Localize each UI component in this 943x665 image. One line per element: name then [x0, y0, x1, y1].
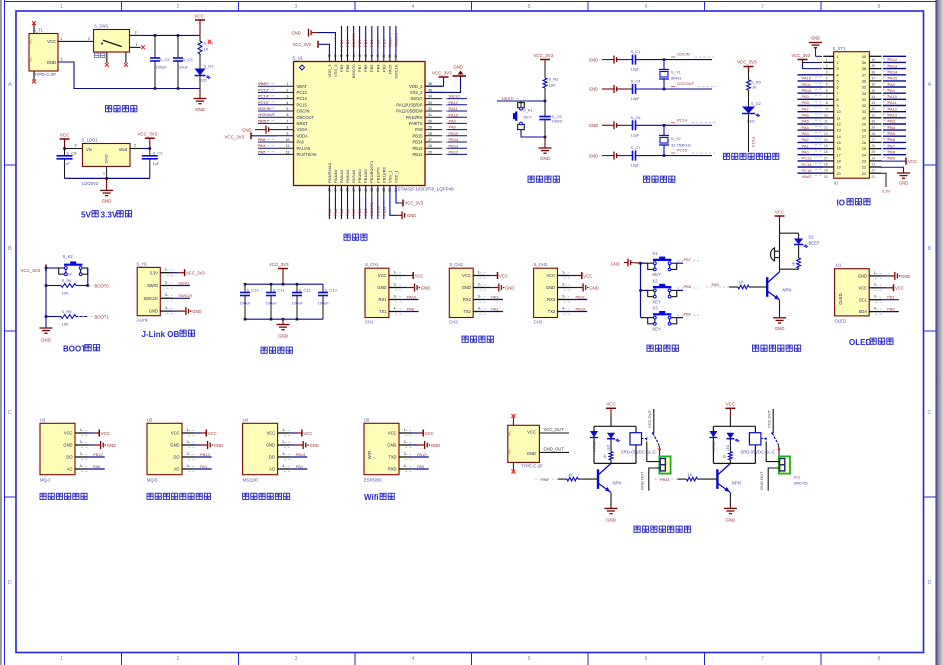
svg-text:3: 3 [394, 294, 396, 298]
svg-text:VCC: VCC [388, 431, 397, 436]
svg-text:4: 4 [404, 464, 406, 468]
resistor S_R3 1K [747, 80, 751, 91]
ST1 left pin 20 [823, 172, 833, 174]
svg-text:TYPE-C-2P: TYPE-C-2P [521, 464, 543, 469]
svg-text:PB14: PB14 [412, 140, 423, 145]
svg-text:PB0: PB0 [357, 208, 362, 216]
svg-text:S_Y2: S_Y2 [671, 136, 682, 141]
svg-text:SWCLK: SWCLK [393, 64, 398, 79]
svg-text:PB11/RX: PB11/RX [381, 167, 386, 183]
svg-text:PB14: PB14 [888, 70, 899, 75]
svg-text:32: 32 [428, 107, 432, 111]
regulator S_LDO1 [83, 144, 131, 167]
svg-text:VCC_3V3: VCC_3V3 [293, 42, 312, 47]
caption keys circuit [647, 345, 653, 351]
terminal JK green PA11 [779, 456, 790, 473]
svg-text:3: 3 [287, 95, 289, 99]
wire VCC OUT PA8 [653, 409, 655, 433]
svg-text:PB3: PB3 [888, 119, 896, 124]
svg-text:GND: GND [589, 153, 598, 158]
svg-text:PC15: PC15 [802, 168, 813, 173]
svg-text:40: 40 [862, 55, 866, 59]
svg-text:PC14: PC14 [258, 94, 269, 99]
ground GND reset [544, 137, 546, 148]
svg-text:19: 19 [837, 166, 841, 170]
svg-text:GND: GND [505, 285, 514, 290]
module U3 MQ-5 body [147, 423, 182, 474]
svg-text:VCC_3V3: VCC_3V3 [269, 262, 289, 267]
svg-text:29: 29 [428, 126, 432, 130]
ST1 left pin 8 [823, 98, 833, 100]
svg-text:VCC: VCC [101, 431, 110, 436]
svg-text:30: 30 [428, 119, 432, 123]
svg-text:VCC: VCC [303, 431, 312, 436]
svg-text:S_Y1: S_Y1 [671, 70, 682, 75]
svg-text:VCC_3V3: VCC_3V3 [21, 268, 41, 273]
net label PB8 [677, 287, 683, 289]
wire filter bottom rail [245, 318, 323, 320]
relay coil SRD PA8 [630, 433, 642, 445]
svg-text:VCC: VCC [208, 431, 217, 436]
capacitor S_C8 1uF [64, 149, 66, 156]
ST1 right pin 40 [869, 55, 881, 57]
svg-text:2: 2 [282, 440, 284, 444]
svg-text:WIFI: WIFI [367, 451, 372, 460]
svg-text:PA11: PA11 [660, 477, 670, 482]
svg-text:S_R4: S_R4 [62, 278, 73, 283]
svg-text:GND: GND [214, 443, 223, 448]
ST1 left pin 17 [823, 154, 833, 156]
svg-text:PB3: PB3 [381, 64, 386, 72]
svg-text:GND: GND [540, 156, 550, 161]
key S_K1 [521, 101, 545, 104]
svg-text:17: 17 [824, 156, 828, 160]
svg-text:4: 4 [80, 464, 82, 468]
key S_K2 [46, 267, 59, 269]
svg-text:S_C1: S_C1 [631, 49, 642, 54]
svg-text:OSCIN: OSCIN [677, 52, 690, 57]
svg-text:PA11: PA11 [888, 100, 898, 105]
svg-text:27: 27 [872, 138, 876, 142]
svg-text:PC15: PC15 [677, 148, 688, 153]
svg-text:12pF: 12pF [631, 67, 641, 72]
svg-text:2: 2 [826, 64, 828, 68]
svg-text:3: 3 [826, 70, 828, 74]
svg-text:KEY: KEY [64, 272, 73, 277]
svg-text:100uF: 100uF [318, 301, 330, 306]
svg-text:NC: NC [29, 38, 33, 44]
svg-text:PB12: PB12 [412, 152, 423, 157]
ST1 left pin 14 [823, 135, 833, 137]
ground GND io right [881, 167, 904, 171]
U1 left pin 11 PA1/A0 [277, 147, 294, 149]
svg-text:GND: GND [41, 338, 51, 343]
svg-text:BOOT1: BOOT1 [95, 314, 110, 319]
svg-text:VCC: VCC [47, 39, 56, 44]
svg-text:4: 4 [394, 306, 396, 310]
svg-text:PB1: PB1 [887, 295, 895, 300]
svg-text:1N5819: 1N5819 [712, 441, 716, 452]
svg-text:2: 2 [562, 282, 564, 286]
caption power circuit [106, 106, 112, 112]
svg-text:9: 9 [287, 132, 289, 136]
svg-text:PB11: PB11 [381, 206, 386, 216]
svg-text:VDDA: VDDA [297, 133, 309, 138]
svg-text:1: 1 [165, 268, 167, 272]
svg-text:PA4: PA4 [333, 208, 338, 216]
svg-text:2: 2 [404, 440, 406, 444]
svg-text:1: 1 [562, 270, 564, 274]
U1 left pin 12 PA2/TX/A0 [277, 153, 294, 155]
svg-text:3: 3 [404, 452, 406, 456]
svg-text:AO: AO [174, 467, 180, 472]
resistor S_R5 10K [46, 316, 61, 318]
svg-text:14: 14 [837, 135, 841, 139]
svg-text:PB11: PB11 [576, 294, 586, 299]
svg-text:S_R2: S_R2 [549, 77, 560, 82]
svg-text:PA10: PA10 [417, 452, 427, 457]
ST1 right pin 32 [869, 105, 881, 107]
svg-text:S_C7: S_C7 [631, 145, 642, 150]
svg-text:S_C2: S_C2 [160, 57, 171, 62]
U1 right pin 26 PB13 [425, 147, 442, 149]
svg-text:U2: U2 [40, 417, 46, 422]
ST1 left pin 1 [823, 55, 833, 57]
svg-text:PA3: PA3 [327, 208, 332, 216]
svg-text:100uF: 100uF [266, 301, 278, 306]
ground GND alarm [779, 300, 781, 317]
wire relay base PA11 [700, 478, 717, 480]
svg-text:20: 20 [824, 175, 828, 179]
svg-text:GND: GND [611, 262, 620, 267]
svg-text:PA0: PA0 [297, 140, 305, 145]
svg-text:2: 2 [177, 4, 180, 10]
svg-text:GND: GND [195, 107, 205, 112]
svg-text:26: 26 [862, 141, 866, 145]
ST1 left pin 12 [823, 123, 833, 125]
svg-text:VCC: VCC [858, 285, 867, 290]
svg-text:PB1: PB1 [363, 208, 368, 216]
wire relay common to terminal PA11 [766, 442, 779, 462]
svg-text:PA15: PA15 [387, 64, 392, 74]
svg-text:PA9: PA9 [407, 306, 415, 311]
net label OSCIN [695, 56, 716, 58]
svg-text:13: 13 [824, 132, 828, 136]
svg-text:PB6: PB6 [363, 39, 368, 47]
svg-text:25: 25 [428, 150, 432, 154]
svg-text:5: 5 [837, 80, 839, 84]
svg-text:SW1O: SW1O [410, 96, 422, 101]
svg-text:GND: GND [407, 213, 416, 218]
svg-text:PB15: PB15 [412, 133, 423, 138]
svg-text:12: 12 [286, 150, 290, 154]
svg-text:PC14: PC14 [297, 96, 308, 101]
ST1 right pin 25 [869, 148, 881, 150]
ST1 right pin 37 [869, 74, 881, 76]
svg-text:15: 15 [824, 144, 828, 148]
connector S_CH3 body [534, 268, 558, 317]
svg-text:PA7: PA7 [351, 208, 356, 216]
pin T2 bottom x [512, 462, 514, 470]
svg-text:RX2: RX2 [463, 297, 472, 302]
svg-text:PA3/RX/A0: PA3/RX/A0 [327, 162, 332, 183]
caption serial circuit [462, 336, 468, 342]
svg-text:PB8: PB8 [345, 39, 350, 47]
svg-text:SWCLK: SWCLK [178, 293, 193, 298]
svg-text:GND: GND [170, 443, 179, 448]
svg-text:OLED: OLED [838, 293, 843, 304]
svg-text:100uF: 100uF [156, 65, 168, 70]
svg-text:12pF: 12pF [631, 163, 641, 168]
svg-text:2: 2 [478, 282, 480, 286]
ST1 left pin 3 [823, 68, 833, 70]
wire key to boot0 [87, 268, 89, 286]
svg-text:1uF: 1uF [63, 161, 70, 166]
svg-text:4: 4 [874, 307, 876, 311]
led power PA8 [607, 433, 615, 439]
svg-text:U1: U1 [836, 263, 842, 268]
relay switch contact PA11 [761, 438, 766, 440]
svg-text:1K: 1K [603, 454, 607, 459]
svg-text:GND_OUT: GND_OUT [544, 446, 565, 451]
wire U1 VSS_1 to GND bottom [390, 186, 396, 216]
svg-text:1: 1 [826, 58, 828, 62]
U1 left pin 6 OSCOUT [277, 116, 294, 118]
svg-text:VCC: VCC [726, 402, 735, 407]
led D1 BEEP [798, 233, 800, 238]
svg-text:GND: GND [292, 30, 301, 35]
svg-text:SWIO: SWIO [178, 280, 189, 285]
svg-text:3: 3 [75, 144, 77, 148]
svg-text:DO: DO [66, 455, 72, 460]
svg-text:3: 3 [135, 31, 137, 35]
svg-text:3: 3 [874, 295, 876, 299]
svg-text:3: 3 [562, 294, 564, 298]
svg-text:2: 2 [88, 37, 90, 41]
wire relay base PA8 [581, 478, 598, 480]
wire power top rail [130, 34, 142, 36]
svg-text:36: 36 [428, 82, 432, 86]
svg-text:3.3V: 3.3V [101, 211, 118, 220]
svg-text:PB11: PB11 [802, 82, 812, 87]
svg-text:PB7: PB7 [888, 143, 896, 148]
svg-text:GND: GND [527, 451, 536, 456]
svg-text:3: 3 [478, 294, 480, 298]
svg-text:PA9: PA9 [449, 119, 457, 124]
wire GND OUT PA11 [768, 468, 779, 491]
svg-text:11: 11 [837, 116, 841, 120]
svg-text:16: 16 [837, 147, 841, 151]
svg-text:PB4: PB4 [375, 39, 380, 47]
svg-text:JK1: JK1 [793, 475, 801, 480]
svg-text:TX2: TX2 [463, 309, 471, 314]
ST1 right pin 30 [869, 117, 881, 119]
ground GND relay PA8 [609, 492, 612, 493]
wire ldo bottom rail [65, 177, 150, 179]
svg-text:OLED: OLED [835, 319, 846, 324]
U1 left pin 3 PC14 [277, 98, 294, 100]
svg-text:B: B [928, 246, 932, 252]
svg-text:1K: 1K [687, 472, 692, 477]
svg-text:2: 2 [287, 88, 289, 92]
svg-text:KEY: KEY [524, 114, 532, 119]
svg-text:KEY: KEY [653, 272, 662, 277]
svg-text:VCC_3V3: VCC_3V3 [405, 201, 424, 206]
svg-text:35: 35 [428, 88, 432, 92]
transistor NPN relay PA8 [597, 469, 599, 489]
svg-text:S_K1: S_K1 [523, 108, 534, 113]
mcu S_U1 STM32F103C8T6 body [294, 62, 426, 186]
svg-text:4: 4 [165, 306, 167, 310]
svg-text:CH2: CH2 [449, 320, 458, 325]
svg-text:VCC: VCC [171, 431, 180, 436]
svg-text:PA2/TX/A0: PA2/TX/A0 [297, 152, 318, 157]
svg-text:PB14: PB14 [449, 137, 460, 142]
svg-text:GND: GND [546, 285, 555, 290]
svg-text:PC15: PC15 [258, 100, 269, 105]
U1 left pin 2 PC13 [277, 91, 294, 93]
svg-text:33: 33 [872, 101, 876, 105]
svg-text:40: 40 [872, 58, 876, 62]
svg-text:VCC_3V3: VCC_3V3 [534, 53, 554, 58]
U1 right pin 29 PA8 [425, 129, 442, 131]
svg-text:PC13: PC13 [751, 137, 756, 148]
svg-text:VCC OUT: VCC OUT [647, 409, 652, 428]
svg-text:7: 7 [837, 92, 839, 96]
svg-text:PB3: PB3 [381, 39, 386, 47]
svg-text:OSCIN: OSCIN [258, 106, 271, 111]
ST1 right pin 34 [869, 92, 881, 94]
display U1 OLED body [835, 269, 870, 316]
svg-text:8: 8 [837, 98, 839, 102]
svg-text:VBAT: VBAT [802, 174, 813, 179]
svg-text:GND: GND [606, 518, 616, 523]
svg-text:1: 1 [61, 37, 63, 41]
svg-text:PA0: PA0 [93, 464, 101, 469]
wire relay loop PA8 [594, 425, 636, 427]
svg-text:SWCLK: SWCLK [143, 296, 158, 301]
svg-text:SRD-05VDC-SL-C: SRD-05VDC-SL-C [621, 450, 656, 455]
svg-text:VCC: VCC [583, 273, 592, 278]
pin S_T1 shield bottom [33, 71, 35, 80]
connector S_CH1 body [365, 268, 389, 317]
svg-text:VCC: VCC [415, 273, 424, 278]
svg-text:PB5: PB5 [888, 131, 896, 136]
svg-text:27: 27 [862, 135, 866, 139]
svg-text:PB4: PB4 [888, 125, 896, 130]
svg-text:31: 31 [872, 113, 876, 117]
svg-text:PB6: PB6 [363, 64, 368, 72]
svg-text:1: 1 [404, 428, 406, 432]
svg-text:PA15: PA15 [802, 76, 812, 81]
ST1 left pin 15 [823, 141, 833, 143]
svg-text:PB0: PB0 [802, 100, 810, 105]
svg-text:VDD_1: VDD_1 [393, 169, 398, 183]
svg-text:PA3: PA3 [491, 294, 499, 299]
svg-text:VCC_3V3: VCC_3V3 [792, 53, 811, 58]
svg-text:CH1: CH1 [365, 320, 374, 325]
header S_H1 jlink body [137, 267, 160, 315]
net label PA8 [535, 478, 559, 480]
svg-text:PB8: PB8 [345, 64, 350, 72]
svg-text:VCC: VCC [908, 159, 917, 164]
svg-text:3: 3 [80, 452, 82, 456]
svg-text:PC14: PC14 [802, 162, 813, 167]
svg-text:Vin: Vin [86, 147, 93, 152]
svg-text:28: 28 [862, 129, 866, 133]
svg-text:8: 8 [878, 656, 881, 662]
svg-text:J-Link: J-Link [137, 318, 149, 323]
svg-text:SWIO: SWIO [147, 283, 158, 288]
svg-text:NRST: NRST [258, 118, 269, 123]
connector S_T1 TYPE-C-2P [29, 34, 58, 72]
svg-text:PA2: PA2 [802, 137, 810, 142]
net label PC15 [692, 152, 716, 154]
svg-text:Vout: Vout [119, 147, 128, 152]
svg-text:VDD_3: VDD_3 [327, 64, 332, 78]
module U2 MQ-2 body [40, 423, 75, 474]
svg-text:VCC_3V3: VCC_3V3 [225, 135, 245, 140]
U1 right pin 25 PB12 [425, 153, 442, 155]
ST1 left pin 5 [823, 80, 833, 82]
svg-text:GND: GND [107, 443, 116, 448]
svg-text:26: 26 [428, 144, 432, 148]
svg-text:9: 9 [837, 104, 839, 108]
power port VCC io right [881, 160, 906, 162]
svg-text:VCC_OUT: VCC_OUT [544, 427, 564, 432]
svg-text:31: 31 [862, 110, 866, 114]
resistor S_R4 10K [46, 285, 61, 287]
svg-text:1: 1 [287, 82, 289, 86]
svg-text:S_C3: S_C3 [183, 57, 194, 62]
ST1 left pin 19 [823, 166, 833, 168]
svg-text:PB9: PB9 [888, 156, 896, 161]
svg-text:S_C4: S_C4 [631, 79, 642, 84]
svg-text:PA8: PA8 [888, 82, 896, 87]
svg-text:PA10: PA10 [407, 294, 417, 299]
U1 left pin 7 NRST [277, 122, 294, 124]
svg-text:GND: GND [462, 285, 471, 290]
svg-text:VCC: VCC [194, 14, 203, 19]
svg-text:IO: IO [834, 181, 839, 186]
caption smoke detect module [40, 493, 46, 499]
svg-text:U5: U5 [364, 417, 370, 422]
svg-text:DO: DO [173, 455, 179, 460]
svg-text:4: 4 [837, 73, 839, 77]
svg-text:BEEP: BEEP [809, 241, 820, 246]
svg-text:S_ST1: S_ST1 [833, 46, 846, 51]
power port VCC_3V3 U1 top [319, 44, 329, 61]
relay coil SRD PA11 [749, 433, 761, 445]
svg-text:PA1: PA1 [200, 464, 208, 469]
key K2 [641, 289, 648, 291]
net label BOOT1 [78, 316, 93, 318]
svg-text:S_C12: S_C12 [299, 288, 312, 293]
svg-text:10K: 10K [62, 322, 69, 327]
svg-text:PA6/A0: PA6/A0 [345, 169, 350, 183]
svg-text:PA5/A0: PA5/A0 [339, 169, 344, 183]
svg-text:RXD: RXD [388, 467, 397, 472]
svg-text:VSS_1: VSS_1 [387, 170, 392, 183]
svg-text:GND: GND [47, 60, 56, 65]
svg-text:2: 2 [187, 440, 189, 444]
svg-text:GND: GND [266, 443, 275, 448]
svg-text:3: 3 [187, 452, 189, 456]
svg-text:PB12: PB12 [93, 452, 104, 457]
ST1 left pin 6 [823, 86, 833, 88]
svg-text:MQ-2: MQ-2 [40, 478, 51, 483]
svg-text:4: 4 [187, 464, 189, 468]
